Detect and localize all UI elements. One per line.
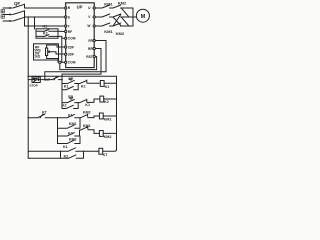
svg-text:K1: K1 <box>43 25 48 29</box>
svg-text:KM1: KM1 <box>69 122 77 126</box>
svg-text:V: V <box>88 15 91 19</box>
svg-text:KT: KT <box>42 111 48 115</box>
svg-text:FR: FR <box>88 39 93 43</box>
svg-text:T: T <box>68 24 70 28</box>
svg-text:SF: SF <box>68 77 73 81</box>
svg-text:KM1: KM1 <box>104 117 112 121</box>
svg-text:KT: KT <box>103 153 109 157</box>
svg-text:K1: K1 <box>68 114 73 118</box>
svg-text:COM: COM <box>68 61 76 65</box>
svg-text:KM1: KM1 <box>83 124 91 128</box>
svg-text:K2: K2 <box>81 84 86 88</box>
svg-text:K2: K2 <box>68 132 73 136</box>
svg-text:STOP: STOP <box>30 84 38 88</box>
svg-text:KM2: KM2 <box>83 111 91 115</box>
svg-text:3DF: 3DF <box>68 53 74 57</box>
svg-text:KM2: KM2 <box>69 138 77 142</box>
svg-text:KM1: KM1 <box>104 1 113 6</box>
svg-text:KM2: KM2 <box>118 1 127 6</box>
svg-text:RR: RR <box>88 47 93 51</box>
svg-text:R: R <box>68 6 71 10</box>
svg-text:K2: K2 <box>62 103 67 107</box>
svg-text:UP: UP <box>77 5 83 10</box>
svg-text:RF: RF <box>68 30 72 34</box>
svg-text:K2: K2 <box>43 32 48 36</box>
svg-text:W: W <box>87 24 91 28</box>
svg-text:S: S <box>68 15 71 19</box>
svg-text:RST: RST <box>86 55 93 59</box>
svg-text:KM2: KM2 <box>116 31 125 36</box>
svg-text:M: M <box>141 14 146 20</box>
svg-text:2DF: 2DF <box>68 45 74 49</box>
svg-text:K1: K1 <box>64 84 69 88</box>
svg-text:KM1: KM1 <box>104 29 113 34</box>
svg-text:K1: K1 <box>85 103 90 107</box>
svg-text:K2: K2 <box>64 155 69 159</box>
svg-text:COM: COM <box>68 37 76 41</box>
svg-text:KT: KT <box>45 78 50 82</box>
svg-text:QF: QF <box>14 1 20 6</box>
svg-text:K2: K2 <box>104 100 109 104</box>
svg-text:SB: SB <box>68 95 73 99</box>
svg-text:KM2: KM2 <box>104 135 112 139</box>
svg-text:K1: K1 <box>63 145 68 149</box>
svg-text:U: U <box>88 6 91 10</box>
svg-text:1kΩ: 1kΩ <box>34 55 41 59</box>
svg-text:K1: K1 <box>105 85 110 89</box>
